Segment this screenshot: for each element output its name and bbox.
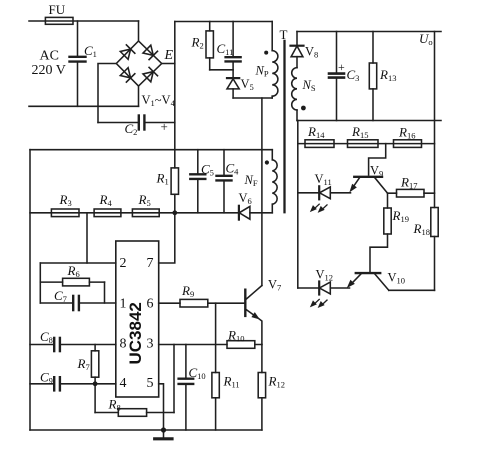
svg-text:C5: C5	[201, 162, 214, 178]
wire pin8 line	[30, 344, 116, 346]
svg-text:R1: R1	[156, 171, 169, 187]
wire E lead	[162, 63, 175, 65]
LED V11	[311, 186, 331, 212]
resistor R8 line	[95, 409, 174, 417]
ground	[155, 430, 172, 439]
svg-text:R11: R11	[223, 374, 240, 390]
op-amp U1 UC3842 box	[116, 241, 159, 397]
diode V5	[227, 78, 239, 98]
svg-text:V8: V8	[305, 45, 318, 60]
svg-text:V1~V4: V1~V4	[142, 93, 176, 108]
wire bridge bottom stub	[138, 86, 140, 106]
svg-text:R16: R16	[398, 125, 415, 141]
wire V9 base path	[369, 144, 386, 175]
dot NP polarity	[264, 51, 268, 55]
big box left edge	[29, 150, 31, 430]
wire pin6 R9 line to V7 base	[159, 302, 244, 304]
transformer core T	[283, 41, 285, 212]
resistor R3	[51, 209, 79, 217]
big box bottom line	[30, 429, 262, 431]
resistor R7	[91, 345, 98, 384]
capacitor C10	[179, 345, 194, 431]
node R5/R1 junction	[172, 210, 177, 215]
resistor R6 branch	[40, 278, 104, 303]
wire R9 junction down through R11	[215, 303, 217, 430]
wire DC+ top rail	[175, 21, 272, 23]
resistor R1	[171, 168, 178, 194]
svg-text:NS: NS	[302, 78, 316, 93]
svg-text:T: T	[280, 27, 288, 42]
svg-text:V11: V11	[315, 172, 332, 187]
wire bridge top stub	[138, 21, 140, 41]
resistor R19	[370, 193, 391, 272]
feedback left edge	[297, 121, 299, 289]
svg-text:C10: C10	[189, 365, 206, 381]
diode top-left of bridge	[120, 45, 135, 59]
fuse FU	[45, 17, 73, 24]
wire pin7	[159, 213, 175, 263]
svg-text:C2: C2	[125, 121, 138, 137]
svg-text:NF: NF	[244, 173, 258, 188]
svg-text:R10: R10	[227, 328, 244, 344]
resistor R10	[227, 341, 255, 349]
svg-text:UC3842: UC3842	[126, 302, 145, 364]
wire V7 emitter to R12	[261, 345, 263, 431]
svg-text:E: E	[164, 48, 174, 63]
wire R3 R4 R5 row	[30, 212, 175, 214]
svg-text:R15: R15	[351, 124, 368, 140]
svg-text:+: +	[338, 60, 345, 74]
capacitor C11	[226, 22, 241, 79]
svg-text:220 V: 220 V	[32, 63, 66, 78]
node ground junction	[161, 427, 166, 432]
wire pin3 line	[159, 344, 262, 346]
svg-text:2: 2	[120, 256, 127, 271]
svg-text:V6: V6	[239, 191, 252, 206]
svg-text:3: 3	[147, 337, 154, 352]
wire R14 R15 R16 row	[298, 143, 435, 145]
svg-text:C1: C1	[84, 43, 97, 59]
wire R17 line	[388, 192, 435, 194]
svg-text:C7: C7	[54, 288, 67, 304]
wire AC top line	[29, 20, 139, 22]
capacitor C2	[139, 116, 145, 130]
node R7/C9 junction	[93, 381, 98, 386]
secondary top rail Uo	[297, 31, 441, 33]
wire C2 left	[98, 122, 139, 124]
svg-text:Uo: Uo	[419, 31, 433, 47]
wire NF bottom rail	[175, 212, 272, 214]
wire R8 right vertical to pin3 line	[173, 345, 175, 413]
svg-text:R12: R12	[268, 374, 285, 390]
big box top rail	[30, 149, 272, 151]
diode top-right of bridge	[143, 45, 158, 59]
svg-text:AC: AC	[40, 49, 59, 64]
LED V12	[311, 282, 331, 308]
svg-text:C9: C9	[40, 370, 53, 386]
wire V12 line	[298, 287, 350, 289]
svg-text:V12: V12	[316, 268, 334, 283]
svg-text:+: +	[161, 119, 168, 134]
wire E vertical / R1 column	[174, 22, 176, 213]
svg-text:R8: R8	[108, 397, 121, 413]
svg-text:V9: V9	[370, 164, 383, 179]
wire switch node line	[233, 97, 272, 99]
wire R6/C7 left vertical	[39, 263, 41, 303]
wire pin1 line	[40, 302, 116, 304]
dot NF polarity	[265, 160, 269, 164]
svg-text:R9: R9	[181, 283, 194, 299]
svg-text:C4: C4	[226, 161, 240, 177]
resistor R5	[132, 209, 159, 217]
svg-text:R4: R4	[99, 192, 113, 208]
resistor R12	[258, 373, 265, 398]
diode bottom-left of bridge	[120, 68, 135, 82]
wire pin2 line	[40, 262, 116, 264]
diode V6	[239, 206, 250, 220]
resistor R16	[394, 140, 422, 148]
svg-text:R14: R14	[307, 124, 325, 140]
svg-text:R5: R5	[138, 192, 151, 208]
secondary rail 2	[297, 120, 441, 122]
capacitor C9	[54, 377, 60, 390]
svg-text:R13: R13	[379, 67, 396, 83]
resistor R9	[180, 299, 208, 307]
capacitor C8	[54, 338, 60, 351]
resistor R14	[305, 140, 334, 148]
bridge rectifier V1~V4 diamond	[116, 41, 161, 86]
capacitor C1	[70, 21, 86, 106]
wire AC bottom line	[29, 105, 139, 107]
svg-text:4: 4	[120, 376, 127, 391]
svg-text:V5: V5	[241, 77, 254, 92]
transistor Q2 V9	[350, 177, 387, 193]
wire pin4 line	[30, 383, 116, 385]
svg-text:R7: R7	[77, 356, 90, 372]
svg-text:6: 6	[147, 297, 154, 312]
svg-text:C8: C8	[40, 329, 53, 345]
svg-text:R6: R6	[67, 263, 80, 279]
diode V8	[291, 32, 304, 68]
secondary right vertical	[434, 32, 436, 291]
wire C2 right	[145, 122, 175, 124]
wire left vertex to C2	[98, 64, 116, 123]
svg-text:7: 7	[147, 256, 154, 271]
svg-text:R2: R2	[191, 35, 204, 51]
wire V11 line	[298, 192, 351, 194]
resistor R2	[206, 22, 233, 70]
capacitor C4	[217, 150, 232, 213]
svg-text:V10: V10	[388, 271, 406, 286]
resistor R15	[348, 140, 379, 148]
svg-text:NP: NP	[255, 64, 269, 79]
diode bottom-right of bridge	[143, 67, 158, 81]
transistor Q3 V10	[348, 273, 389, 290]
svg-text:C3: C3	[347, 67, 360, 83]
capacitor C5	[190, 150, 205, 213]
transformer winding NF	[272, 150, 277, 213]
wire switch vertical to V7 collector	[261, 98, 263, 286]
svg-text:C11: C11	[217, 41, 234, 57]
svg-text:R19: R19	[392, 208, 409, 224]
svg-text:R17: R17	[400, 175, 417, 191]
resistor R11	[212, 373, 219, 398]
resistor R18	[431, 208, 438, 237]
wire R7/C9 junction down	[94, 384, 96, 413]
dot NS polarity	[301, 106, 306, 111]
svg-text:R3: R3	[59, 192, 72, 208]
transformer winding NS	[292, 68, 297, 121]
transformer winding NP	[272, 22, 278, 99]
resistor R17	[397, 189, 425, 197]
svg-text:R18: R18	[413, 221, 430, 237]
capacitor C3	[329, 32, 344, 121]
resistor R4	[94, 209, 121, 217]
svg-text:V7: V7	[268, 278, 281, 293]
capacitor C7	[73, 296, 79, 310]
wire pin5 to ground	[159, 384, 164, 430]
wire R3/R4 junction down to pin2	[86, 213, 88, 263]
svg-text:5: 5	[147, 376, 154, 391]
wire V10 collector to R18	[389, 289, 435, 291]
transistor Q1 V7	[245, 286, 262, 345]
svg-text:FU: FU	[49, 2, 66, 17]
resistor R13	[369, 32, 376, 121]
